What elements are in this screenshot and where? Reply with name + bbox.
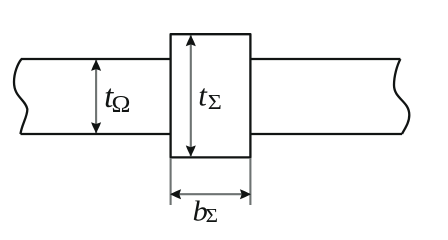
svg-text:t: t: [198, 78, 208, 113]
svg-text:Ω: Ω: [112, 91, 131, 117]
svg-text:Σ: Σ: [208, 91, 222, 114]
svg-text:Σ: Σ: [206, 206, 218, 227]
